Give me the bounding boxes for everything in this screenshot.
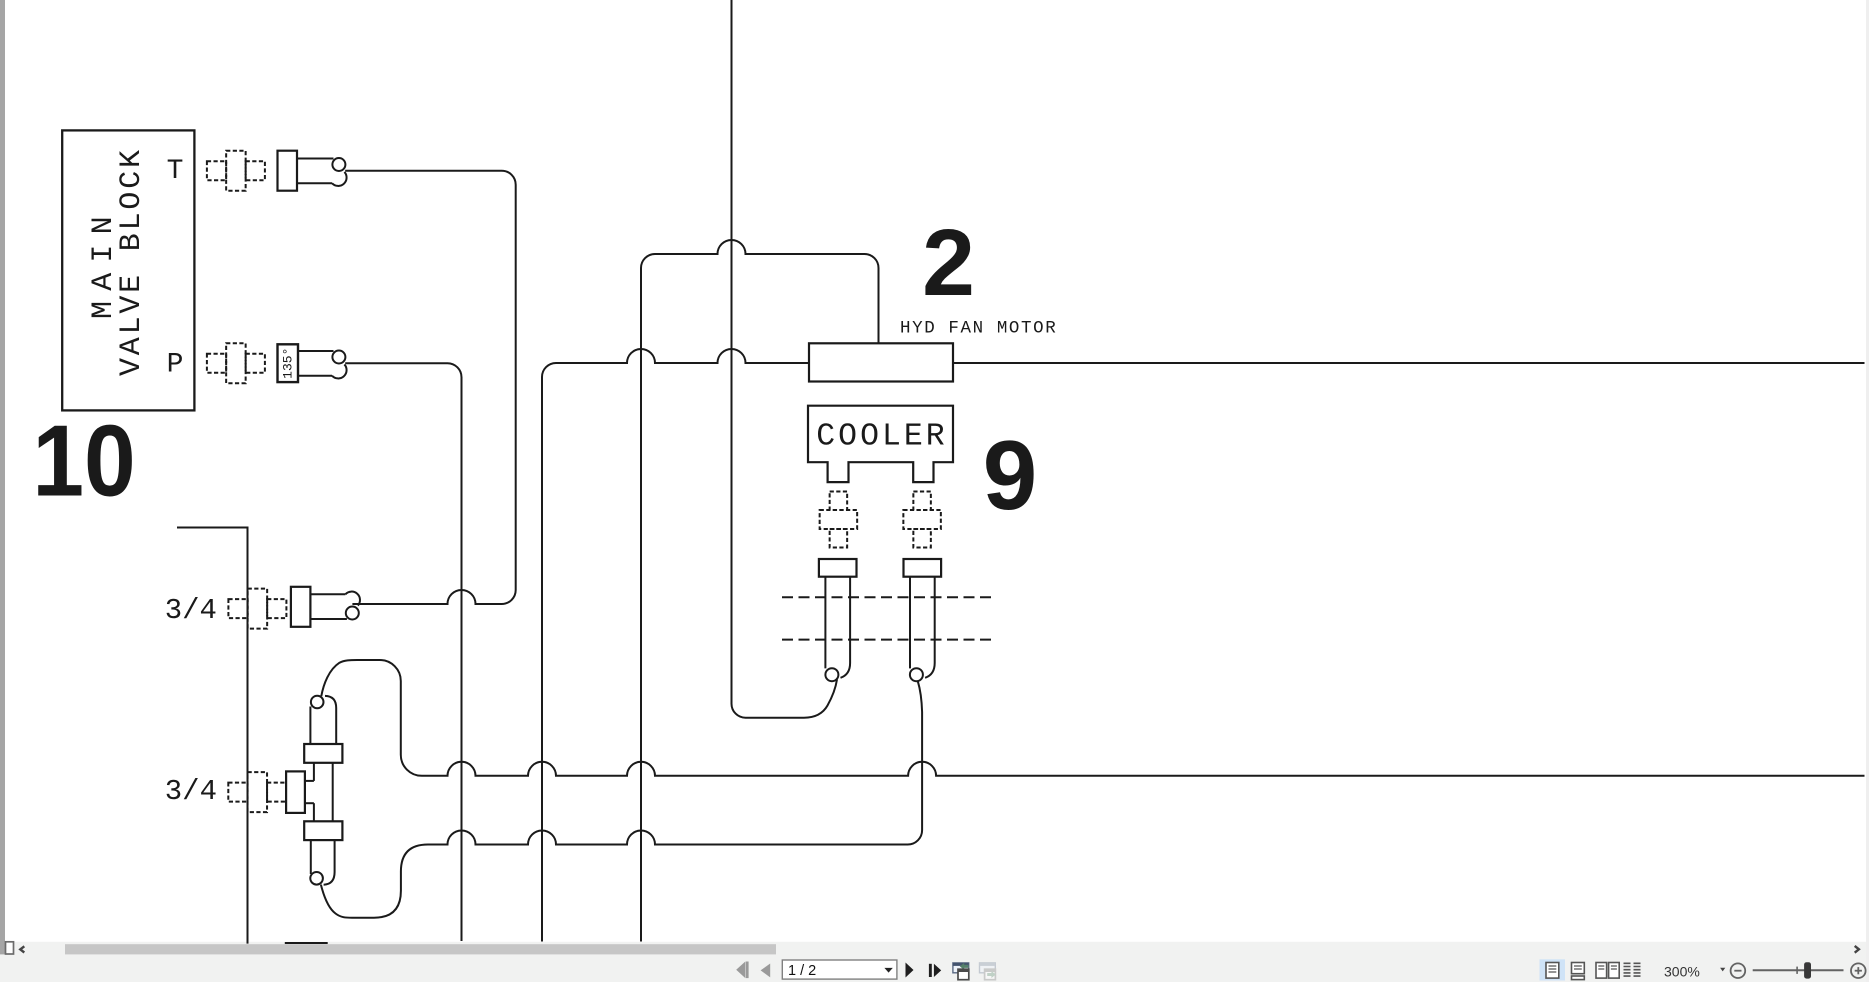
cooler box with two bottom tabs [808,406,953,482]
quick-disconnect cross 3/4 upper [228,589,286,629]
wire from tee bottom port via S-curve into line C to cooler right port [321,681,922,918]
view mode: facing pages [1596,963,1619,979]
svg-text:T: T [167,156,184,187]
view mode: facing continuous [1624,963,1641,976]
tee bottom clamp [304,821,342,840]
left vertical scrollbar strip [0,0,5,954]
cooler left pipe [825,577,850,682]
next view icon (disabled) [980,963,996,980]
tee top clamp [304,744,342,763]
quick-disconnect cross at P port [207,343,265,383]
svg-text:1 / 2: 1 / 2 [788,963,816,979]
previous view icon [953,963,969,980]
scrollbar right arrow [1855,946,1859,953]
hose end fitting 3/4 upper [291,587,360,627]
wire line A left segment into vertical x542 (net V3) [542,349,809,942]
last page button [929,964,941,977]
previous page button [761,964,771,978]
wire line A right of fan motor to page edge [953,362,1865,364]
svg-text:135°: 135° [281,348,296,379]
wire loop from node at x641 over to fan motor top (net V2/H254) [641,240,879,942]
scrollbar corner box [6,942,14,954]
wire stub with corner into vertical x247.5 (net V5) [177,528,248,944]
viewer bottom bar background [0,942,1869,982]
svg-text:300%: 300% [1664,963,1700,979]
svg-text:9: 9 [983,420,1038,530]
tee bottom hose end (vertical, loop down) [310,840,334,885]
tee top hose end (vertical, loop up) [310,696,336,744]
wire from P port: right then down (net V4) [345,363,461,941]
zoom in button [1851,963,1866,978]
hose end fitting at T port [278,151,347,191]
scrollbar left arrow [20,946,24,952]
horizontal scrollbar thumb [65,944,776,954]
svg-text:10: 10 [32,404,135,517]
cooler right pipe [910,577,935,682]
quick-disconnect cross cooler left [820,491,858,547]
zoom slider [1753,962,1844,978]
next page button [906,963,914,978]
tee body [305,763,333,822]
adapter rect at tee side port [286,771,305,813]
hyd fan motor body [809,343,953,381]
svg-text:HYD FAN MOTOR: HYD FAN MOTOR [900,319,1057,339]
view mode: single page (active) [1540,959,1566,980]
cooler right hose rect [904,559,942,577]
cooler left hose rect [819,559,857,577]
svg-text:3/4: 3/4 [165,775,217,808]
wire from tee top port up/right/down into line B to page edge [321,660,1864,776]
svg-text:COOLER: COOLER [816,419,947,454]
svg-text:3/4: 3/4 [165,594,217,627]
zoom dropdown arrow [1720,968,1725,972]
bulkhead dashed line upper [782,596,993,598]
quick-disconnect cross 3/4 lower [228,772,286,812]
wire vertical from top to cooler left port (net V1) [732,0,838,718]
right edge strip [1866,0,1869,982]
hose end fitting at P port (135 deg) [278,344,347,382]
first page button [736,962,748,979]
zoom out button [1731,963,1746,978]
page number combo box [782,960,897,979]
bulkhead dashed line lower [782,639,993,641]
wire from T port: right, down x515.7, left to 3/4 fitting (net H604) [345,171,516,604]
svg-text:P: P [167,350,184,381]
view mode: continuous [1572,963,1585,980]
svg-text:VALVE BLOCK: VALVE BLOCK [115,147,149,376]
svg-text:2: 2 [922,210,975,316]
quick-disconnect cross cooler right [903,491,941,547]
quick-disconnect cross at T port [207,151,265,191]
wire small segment at bottom edge [285,942,328,944]
main valve block [62,130,194,410]
